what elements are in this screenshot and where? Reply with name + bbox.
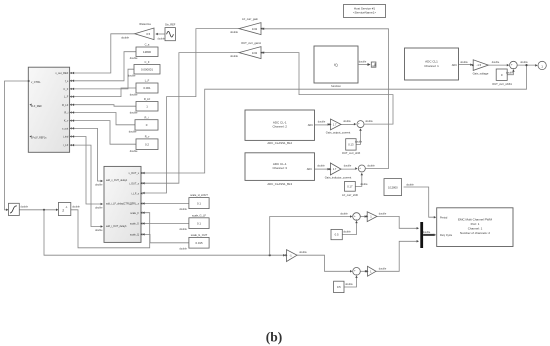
svg-text:0.5: 0.5	[337, 285, 341, 289]
svg-text:−: −	[513, 66, 515, 70]
svg-text:EMC Multi Channel PWM: EMC Multi Channel PWM	[458, 218, 493, 222]
svg-text:1.7: 1.7	[333, 167, 337, 171]
svg-text:scale_G: scale_G	[130, 223, 139, 226]
svg-text:L_F: L_F	[145, 79, 150, 83]
svg-text:1/32: 1/32	[252, 27, 258, 31]
svg-text:Period: Period	[440, 216, 448, 219]
svg-text:double: double	[158, 37, 166, 40]
svg-text:double: double	[128, 74, 136, 78]
svg-text:Wsteczna: Wsteczna	[139, 22, 151, 26]
svg-text:Channel: 1: Channel: 1	[468, 227, 483, 231]
svg-text:<ServiceName1>: <ServiceName1>	[353, 11, 376, 15]
svg-text:v_out: v_out	[62, 127, 69, 131]
svg-text:double: double	[379, 212, 387, 215]
svg-text:double: double	[365, 120, 373, 123]
svg-text:double: double	[95, 207, 103, 210]
svg-text:f(): f()	[334, 63, 337, 67]
svg-text:K_v: K_v	[64, 119, 69, 123]
svg-text:0.015: 0.015	[196, 241, 203, 245]
svg-text:double: double	[179, 248, 187, 251]
svg-text:double: double	[367, 164, 375, 167]
svg-text:OUT_curr_shift: OUT_curr_shift	[342, 151, 360, 155]
svg-text:0.2: 0.2	[145, 142, 149, 146]
svg-text:Port: 1: Port: 1	[471, 222, 480, 226]
svg-text:0.5: 0.5	[146, 32, 150, 36]
svg-text:Gain_inductor_current: Gain_inductor_current	[325, 176, 352, 180]
svg-text:double: double	[359, 61, 367, 64]
svg-text:C_F: C_F	[63, 87, 68, 91]
svg-text:Channel: 2: Channel: 2	[272, 125, 287, 129]
svg-text:scale_F: scale_F	[130, 212, 139, 215]
svg-text:double: double	[179, 228, 187, 231]
svg-text:scale_H_sOUT: scale_H_sOUT	[190, 193, 208, 197]
svg-text:double: double	[317, 164, 325, 167]
svg-text:Gain_voltage: Gain_voltage	[473, 72, 489, 76]
svg-text:ADC_CLASS1_BL2: ADC_CLASS1_BL2	[267, 141, 292, 145]
svg-text:0.17: 0.17	[347, 185, 353, 189]
svg-text:double: double	[406, 183, 414, 186]
svg-text:OUT_curr_gain1: OUT_curr_gain1	[241, 41, 261, 45]
svg-text:Gain_output_current: Gain_output_current	[326, 131, 351, 135]
svg-text:double: double	[379, 267, 387, 270]
svg-text:double: double	[95, 229, 103, 232]
svg-text:i_LF: i_LF	[63, 143, 69, 147]
svg-text:double: double	[230, 30, 238, 34]
svg-text:double: double	[345, 283, 353, 286]
svg-text:C_F: C_F	[145, 60, 150, 64]
svg-text:Number of channels: 2: Number of channels: 2	[460, 231, 491, 235]
svg-text:double: double	[179, 208, 187, 211]
svg-text:0.1: 0.1	[197, 221, 201, 225]
svg-text:double: double	[299, 251, 307, 254]
svg-text:scale_G_LF: scale_G_LF	[192, 213, 206, 217]
svg-text:Sin_REF: Sin_REF	[165, 23, 176, 27]
svg-text:12800: 12800	[143, 50, 151, 54]
svg-text:(b): (b)	[266, 330, 283, 345]
svg-text:add_i_LF_delay(CTRL_s: add_i_LF_delay(CTRL_s	[106, 203, 133, 206]
svg-text:vLF_REF: vLF_REF	[31, 104, 42, 108]
svg-text:double: double	[130, 111, 138, 115]
svg-text:LF_curr_shift: LF_curr_shift	[342, 193, 358, 197]
svg-text:double: double	[360, 183, 368, 186]
svg-text:i_ind: i_ind	[62, 135, 68, 139]
svg-text:Channel: 3: Channel: 3	[272, 166, 287, 170]
svg-text:R_v: R_v	[145, 135, 150, 139]
svg-text:double: double	[95, 184, 103, 187]
svg-text:ADC: ADC	[308, 124, 313, 127]
svg-text:0.13: 0.13	[348, 143, 354, 147]
svg-text:double: double	[423, 231, 431, 234]
svg-text:1/12800: 1/12800	[388, 186, 398, 190]
svg-text:0.1: 0.1	[197, 201, 201, 205]
svg-text:ADC: ADC	[452, 64, 457, 67]
svg-text:R_LF: R_LF	[62, 103, 69, 107]
svg-text:v_out_REF: v_out_REF	[55, 71, 68, 75]
svg-text:double: double	[460, 61, 468, 64]
svg-text:Duty Cycle: Duty Cycle	[440, 234, 453, 237]
svg-text:z: z	[62, 207, 64, 212]
svg-text:add_i_OUT_delay1: add_i_OUT_delay1	[106, 225, 127, 228]
svg-text:scale_Q: scale_Q	[130, 234, 139, 237]
svg-text:double: double	[492, 61, 500, 64]
svg-text:ADC: ADC	[307, 168, 312, 171]
svg-text:double: double	[121, 36, 129, 40]
svg-text:ADC_CLASS1_BL3: ADC_CLASS1_BL3	[267, 182, 292, 186]
svg-text:R_LF: R_LF	[144, 97, 151, 101]
svg-text:double: double	[130, 56, 138, 60]
svg-text:double: double	[343, 120, 351, 123]
svg-text:Channel: 1: Channel: 1	[424, 64, 439, 68]
svg-text:double: double	[506, 72, 514, 75]
svg-text:L_F: L_F	[64, 95, 69, 99]
svg-text:R_i: R_i	[64, 111, 68, 115]
svg-text:OUT_curr_shift1: OUT_curr_shift1	[492, 82, 512, 86]
svg-text:function: function	[331, 84, 341, 88]
svg-text:scale_G_OUT: scale_G_OUT	[191, 233, 208, 237]
svg-text:double: double	[230, 54, 238, 58]
svg-text:1/32: 1/32	[252, 51, 258, 55]
svg-text:0.5: 0.5	[335, 233, 339, 237]
svg-text:i_OUT_s: i_OUT_s	[129, 182, 140, 185]
svg-text:double: double	[129, 130, 137, 134]
svg-text:v_OUT_s: v_OUT_s	[128, 172, 139, 175]
svg-text:R_i: R_i	[145, 115, 149, 119]
svg-text:v_CTRL: v_CTRL	[31, 80, 41, 84]
svg-text:double: double	[21, 206, 29, 209]
svg-text:double: double	[130, 149, 138, 153]
svg-text:double: double	[318, 121, 326, 124]
svg-text:double: double	[72, 206, 80, 209]
svg-text:C_a: C_a	[145, 43, 150, 47]
svg-text:i_LF_s: i_LF_s	[131, 193, 140, 196]
svg-text:double: double	[340, 213, 348, 216]
svg-text:LF_curr_gain: LF_curr_gain	[242, 17, 258, 21]
svg-text:0.001: 0.001	[143, 86, 151, 90]
svg-text:double: double	[355, 141, 363, 144]
svg-text:add_v_OUT_delay1: add_v_OUT_delay1	[106, 179, 128, 182]
svg-text:double: double	[343, 231, 351, 234]
svg-text:0.000001: 0.000001	[141, 67, 153, 71]
svg-text:double: double	[520, 61, 528, 64]
svg-text:1.7: 1.7	[333, 123, 337, 127]
svg-text:double: double	[344, 164, 352, 167]
svg-text:-1.5: -1.5	[476, 63, 481, 67]
svg-text:LFvLF_REF1s: LFvLF_REF1s	[31, 137, 47, 140]
svg-text:double: double	[130, 93, 138, 97]
